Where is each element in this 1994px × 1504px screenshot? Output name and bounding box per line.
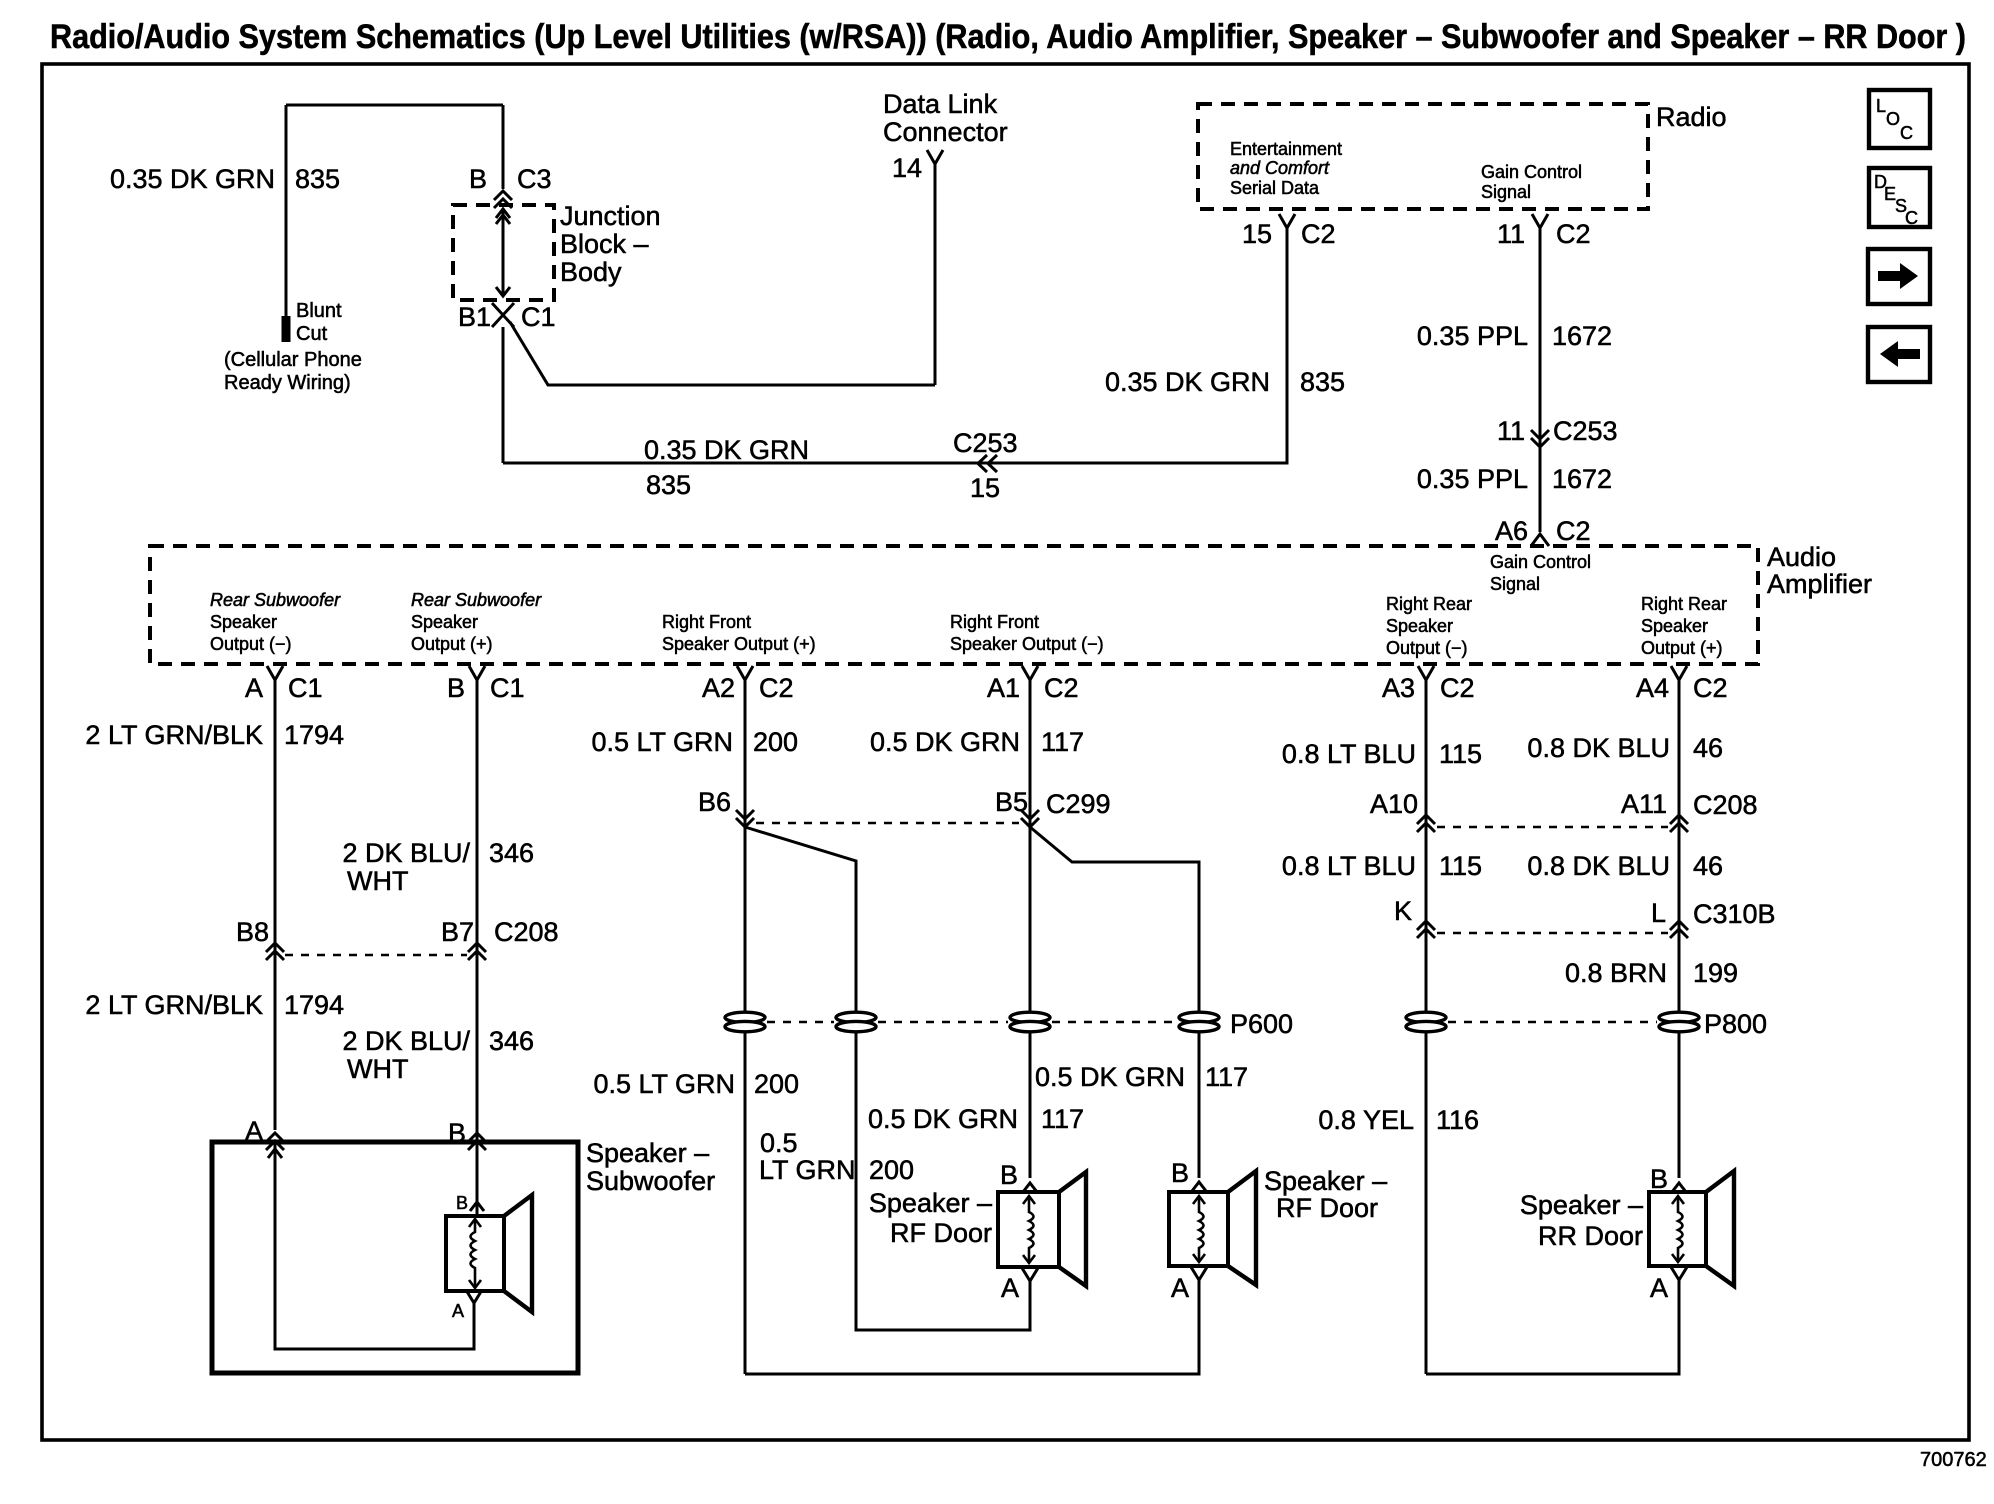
svg-text:Signal: Signal	[1481, 182, 1531, 202]
svg-text:and Comfort: and Comfort	[1230, 158, 1330, 178]
svg-text:15: 15	[970, 473, 1000, 503]
svg-text:1794: 1794	[284, 990, 344, 1020]
button arrow left	[1868, 327, 1930, 382]
RR door speaker coil box	[1649, 1192, 1706, 1266]
subwoofer speaker pin A fork	[466, 1290, 482, 1305]
svg-text:116: 116	[1436, 1105, 1479, 1135]
svg-text:Right Rear: Right Rear	[1641, 594, 1727, 614]
svg-text:0.8 LT BLU: 0.8 LT BLU	[1282, 739, 1416, 769]
svg-text:0.35 DK GRN: 0.35 DK GRN	[644, 435, 809, 465]
RR door speaker coil element	[1678, 1196, 1683, 1262]
svg-text:B1: B1	[458, 302, 491, 332]
connector C253 chevrons	[978, 455, 997, 472]
svg-text:B: B	[1171, 1158, 1189, 1188]
svg-text:1794: 1794	[284, 720, 344, 750]
button arrow right	[1868, 249, 1930, 304]
svg-text:C: C	[1905, 208, 1918, 228]
svg-text:LT GRN: LT GRN	[759, 1155, 856, 1185]
svg-text:Signal: Signal	[1490, 574, 1540, 594]
svg-text:117: 117	[1041, 727, 1084, 757]
svg-text:Rear Subwoofer: Rear Subwoofer	[210, 590, 341, 610]
dashed connector line K to L	[1437, 932, 1668, 935]
svg-text:2 DK BLU/: 2 DK BLU/	[342, 838, 470, 868]
svg-text:Speaker: Speaker	[1386, 616, 1453, 636]
svg-text:A11: A11	[1621, 789, 1667, 819]
amplifier pin A2 C2 fork	[737, 666, 753, 682]
svg-text:Right Rear: Right Rear	[1386, 594, 1472, 614]
svg-text:RF Door: RF Door	[890, 1218, 992, 1248]
wire 835 down from B1 C1	[502, 327, 505, 463]
button LOC	[1869, 90, 1930, 148]
svg-text:WHT: WHT	[347, 1054, 408, 1084]
svg-text:Speaker –: Speaker –	[869, 1188, 992, 1218]
junction block internal pass-through wire	[502, 208, 505, 296]
amplifier pin A1 C2 fork	[1022, 666, 1038, 682]
svg-text:B6: B6	[698, 787, 731, 817]
svg-text:Right Front: Right Front	[662, 612, 751, 632]
wire to data link connector pin 14	[934, 165, 937, 385]
amplifier pin A3 C2 fork	[1418, 666, 1434, 682]
svg-text:B: B	[456, 1193, 468, 1213]
svg-text:Speaker –: Speaker –	[1520, 1190, 1643, 1220]
svg-text:P800: P800	[1704, 1009, 1767, 1039]
svg-text:0.35 DK GRN: 0.35 DK GRN	[110, 164, 275, 194]
svg-text:Junction: Junction	[560, 201, 661, 231]
svg-text:1672: 1672	[1552, 464, 1612, 494]
amplifier pin B C1 fork	[469, 666, 485, 682]
button DESC	[1869, 168, 1930, 228]
svg-text:C: C	[1900, 123, 1913, 143]
svg-text:C2: C2	[1693, 673, 1728, 703]
svg-text:0.35 PPL: 0.35 PPL	[1417, 321, 1528, 351]
svg-text:C253: C253	[953, 428, 1018, 458]
subwoofer speaker horn	[504, 1195, 532, 1312]
RF door speaker 1 horn	[1059, 1172, 1086, 1286]
svg-text:115: 115	[1439, 739, 1482, 769]
svg-text:B5: B5	[995, 787, 1028, 817]
connector 11 C253 chevrons	[1531, 430, 1549, 447]
RR door speaker pin B chevron	[1672, 1183, 1686, 1192]
RF door speaker 1 pin A fork	[1022, 1268, 1038, 1283]
junction block body dashed box	[453, 205, 554, 300]
svg-text:Rear Subwoofer: Rear Subwoofer	[411, 590, 542, 610]
svg-text:C2: C2	[1556, 219, 1591, 249]
radio dashed box	[1198, 104, 1648, 209]
dashed grommet line P600	[767, 1021, 1177, 1024]
grommet on wire 115	[1406, 1012, 1446, 1032]
svg-text:11: 11	[1497, 416, 1525, 446]
svg-text:199: 199	[1693, 958, 1738, 988]
blunt cut	[282, 316, 291, 342]
speaker subwoofer enclosure box	[212, 1142, 578, 1373]
RF door speaker 1 coil box	[998, 1192, 1059, 1267]
svg-text:Speaker: Speaker	[1641, 616, 1708, 636]
svg-text:0.8 DK BLU: 0.8 DK BLU	[1527, 851, 1670, 881]
radio pin 11 C2 fork	[1532, 214, 1548, 230]
svg-text:Speaker –: Speaker –	[586, 1138, 709, 1168]
connector A10 chevrons	[1417, 815, 1435, 832]
svg-text:C2: C2	[1556, 516, 1591, 546]
svg-text:0.5 LT GRN: 0.5 LT GRN	[591, 727, 733, 757]
svg-text:C1: C1	[490, 673, 525, 703]
svg-text:835: 835	[1300, 367, 1345, 397]
svg-text:Speaker Output (−): Speaker Output (−)	[950, 634, 1104, 654]
connector B8 chevrons	[266, 943, 284, 960]
connector K chevrons	[1417, 921, 1435, 938]
svg-text:B7: B7	[441, 917, 474, 947]
svg-text:Connector: Connector	[883, 117, 1008, 147]
svg-text:46: 46	[1693, 851, 1723, 881]
audio amplifier dashed box	[150, 546, 1758, 664]
svg-text:P600: P600	[1230, 1009, 1293, 1039]
svg-text:RF Door: RF Door	[1276, 1193, 1378, 1223]
svg-text:0.5 DK GRN: 0.5 DK GRN	[868, 1104, 1018, 1134]
svg-text:0.8 LT BLU: 0.8 LT BLU	[1282, 851, 1416, 881]
svg-text:Data Link: Data Link	[883, 89, 998, 119]
svg-text:2 LT GRN/BLK: 2 LT GRN/BLK	[85, 720, 263, 750]
svg-text:0.5 DK GRN: 0.5 DK GRN	[870, 727, 1020, 757]
subwoofer speaker coil box	[446, 1216, 504, 1291]
svg-text:115: 115	[1439, 851, 1482, 881]
svg-text:K: K	[1394, 896, 1412, 926]
svg-text:A2: A2	[702, 673, 735, 703]
svg-text:A: A	[452, 1301, 464, 1321]
pin A6 C2 chevron into amplifier	[1531, 534, 1549, 546]
RR door speaker pin A fork	[1671, 1267, 1687, 1282]
amplifier pin A4 C2 fork	[1671, 666, 1687, 682]
subwoofer speaker coil element	[471, 1219, 476, 1288]
svg-text:11: 11	[1497, 219, 1525, 249]
svg-text:117: 117	[1205, 1062, 1248, 1092]
svg-text:Audio: Audio	[1767, 542, 1836, 572]
svg-text:L: L	[1651, 898, 1666, 928]
RF door speaker 2 pin A fork	[1191, 1267, 1207, 1282]
grommet on wire 200	[725, 1012, 765, 1032]
svg-text:1672: 1672	[1552, 321, 1612, 351]
svg-text:Block –: Block –	[560, 229, 649, 259]
svg-text:46: 46	[1693, 733, 1723, 763]
svg-text:A3: A3	[1382, 673, 1415, 703]
wire 346 from pin B down to subwoofer	[476, 680, 479, 1216]
svg-text:700762: 700762	[1920, 1449, 1987, 1471]
svg-text:RR Door: RR Door	[1538, 1221, 1643, 1251]
svg-text:B: B	[469, 164, 487, 194]
svg-text:C2: C2	[759, 673, 794, 703]
pin B C3 connector chevrons	[494, 191, 512, 208]
svg-text:O: O	[1886, 109, 1900, 129]
wire into junction block pin B C3	[502, 105, 505, 189]
dashed grommet line P800	[1448, 1021, 1657, 1024]
RF door speaker 2 coil element	[1199, 1196, 1204, 1262]
amplifier pin A C1 fork	[267, 666, 283, 682]
svg-text:0.8 DK BLU: 0.8 DK BLU	[1527, 733, 1670, 763]
svg-text:C208: C208	[1693, 790, 1758, 820]
svg-text:Entertainment: Entertainment	[1230, 139, 1342, 159]
svg-text:0.35 DK GRN: 0.35 DK GRN	[1105, 367, 1270, 397]
RF door speaker 2 horn	[1228, 1171, 1256, 1285]
wire 200 bottom return to RF door speaker 2 pin A	[745, 1280, 1199, 1374]
svg-text:Output (−): Output (−)	[1386, 638, 1468, 658]
grommet on wire 199	[1659, 1012, 1699, 1032]
svg-text:0.5: 0.5	[760, 1128, 798, 1158]
RF door speaker 2 coil box	[1169, 1192, 1228, 1266]
svg-text:Output (+): Output (+)	[1641, 638, 1723, 658]
svg-text:117: 117	[1041, 1104, 1084, 1134]
RF door speaker 1 coil element	[1029, 1196, 1034, 1263]
svg-text:B: B	[447, 673, 465, 703]
svg-text:Output (+): Output (+)	[411, 634, 493, 654]
wire 835 blunt cut vertical	[285, 105, 288, 318]
svg-text:Cut: Cut	[296, 323, 328, 345]
svg-text:A: A	[1001, 1273, 1019, 1303]
subwoofer internal wire B	[476, 1142, 479, 1216]
svg-text:Right Front: Right Front	[950, 612, 1039, 632]
svg-text:0.8 YEL: 0.8 YEL	[1318, 1105, 1414, 1135]
RF door speaker 1 pin B chevron	[1023, 1183, 1037, 1192]
svg-text:200: 200	[753, 727, 798, 757]
svg-text:Speaker: Speaker	[411, 612, 478, 632]
svg-text:A10: A10	[1370, 789, 1418, 819]
wire 115 from pin A3 down	[1425, 680, 1428, 1374]
svg-text:WHT: WHT	[347, 866, 408, 896]
RF door speaker 2 pin B chevron	[1192, 1182, 1206, 1191]
svg-text:200: 200	[754, 1069, 799, 1099]
connector B5 C299 chevrons	[1021, 810, 1039, 827]
svg-text:200: 200	[869, 1155, 914, 1185]
svg-text:346: 346	[489, 1026, 534, 1056]
svg-text:Body: Body	[560, 257, 622, 287]
wire 835 top horizontal from blunt cut to junction block	[286, 104, 503, 107]
svg-text:C2: C2	[1044, 673, 1079, 703]
svg-text:835: 835	[646, 470, 691, 500]
svg-text:C299: C299	[1046, 789, 1111, 819]
grommet on wire 117 branch	[1179, 1012, 1219, 1032]
wire 1794 from pin A down to subwoofer	[274, 680, 277, 1130]
svg-text:346: 346	[489, 838, 534, 868]
wire 116 bottom return to RR door speaker pin A	[1426, 1280, 1679, 1374]
radio pin 15 C2 fork	[1279, 214, 1295, 230]
wire 46 from pin A4 down to RR door speaker B	[1678, 680, 1681, 1178]
svg-text:15: 15	[1242, 219, 1272, 249]
dashed connector line A10 to A11	[1437, 826, 1668, 829]
svg-text:C1: C1	[288, 673, 323, 703]
svg-text:C208: C208	[494, 917, 559, 947]
svg-text:A6: A6	[1495, 516, 1528, 546]
svg-text:A4: A4	[1636, 673, 1669, 703]
grommet on wire 200 branch	[836, 1012, 876, 1032]
RR door speaker horn	[1706, 1171, 1734, 1286]
wire 1672 from radio pin 11	[1539, 228, 1542, 532]
svg-text:Radio/Audio System Schematics: Radio/Audio System Schematics (Up Level …	[50, 18, 1966, 56]
svg-text:0.5 DK GRN: 0.5 DK GRN	[1035, 1062, 1185, 1092]
subwoofer pin A chevrons	[266, 1133, 284, 1150]
svg-text:B8: B8	[236, 917, 269, 947]
wire 835 diagonal from B1 C1 to data link connector run	[510, 322, 935, 385]
svg-text:L: L	[1876, 96, 1886, 116]
pin 14 fork	[927, 150, 943, 166]
pin B1 C1 connector X	[492, 303, 514, 327]
svg-text:(Cellular Phone: (Cellular Phone	[224, 349, 362, 371]
svg-text:Radio: Radio	[1656, 102, 1727, 132]
wire 117 from pin A1 down to RF door speaker B	[1029, 680, 1032, 1178]
svg-text:Gain Control: Gain Control	[1481, 162, 1582, 182]
svg-text:C253: C253	[1553, 416, 1618, 446]
svg-text:C2: C2	[1440, 673, 1475, 703]
svg-text:Amplifier: Amplifier	[1767, 569, 1872, 599]
wire 200 branch from B6 to RF door speaker A	[745, 827, 1030, 1330]
svg-text:Ready Wiring): Ready Wiring)	[224, 372, 351, 394]
svg-text:Blunt: Blunt	[296, 300, 342, 322]
svg-text:835: 835	[295, 164, 340, 194]
svg-text:2 DK BLU/: 2 DK BLU/	[342, 1026, 470, 1056]
svg-text:0.35 PPL: 0.35 PPL	[1417, 464, 1528, 494]
svg-text:Gain Control: Gain Control	[1490, 552, 1591, 572]
svg-text:Output (−): Output (−)	[210, 634, 292, 654]
svg-text:C1: C1	[521, 302, 556, 332]
wire 835 horizontal run to radio pin 15	[503, 230, 1287, 463]
svg-text:0.8 BRN: 0.8 BRN	[1565, 958, 1667, 988]
svg-text:2 LT GRN/BLK: 2 LT GRN/BLK	[85, 990, 263, 1020]
connector B6 chevrons	[736, 810, 754, 827]
svg-text:14: 14	[892, 153, 922, 183]
subwoofer internal wire A	[275, 1142, 474, 1349]
dashed connector line B6 to B5	[756, 822, 1019, 825]
dashed connector line B8 to B7	[285, 954, 467, 957]
svg-text:A: A	[1171, 1273, 1189, 1303]
svg-text:Serial Data: Serial Data	[1230, 178, 1320, 198]
wire 200 from pin A2 down	[744, 680, 747, 1374]
connector L C310B chevrons	[1670, 921, 1688, 938]
wire 117 branch from B5 to second RF door speaker B	[1030, 827, 1199, 1178]
svg-text:B: B	[1000, 1160, 1018, 1190]
svg-text:Subwoofer: Subwoofer	[586, 1166, 715, 1196]
svg-text:Speaker Output (+): Speaker Output (+)	[662, 634, 816, 654]
connector B7 C208 chevrons	[468, 943, 486, 960]
svg-text:0.5 LT GRN: 0.5 LT GRN	[593, 1069, 735, 1099]
grommet on wire 117	[1010, 1012, 1050, 1032]
svg-text:B: B	[1650, 1164, 1668, 1194]
svg-text:C310B: C310B	[1693, 899, 1776, 929]
svg-text:A: A	[1650, 1273, 1668, 1303]
svg-text:A1: A1	[987, 673, 1020, 703]
svg-text:C2: C2	[1301, 219, 1336, 249]
svg-text:C3: C3	[517, 164, 552, 194]
svg-text:Speaker: Speaker	[210, 612, 277, 632]
subwoofer pin B chevrons	[468, 1133, 486, 1150]
svg-text:Speaker –: Speaker –	[1264, 1166, 1387, 1196]
svg-text:A: A	[245, 673, 263, 703]
connector A11 C208 chevrons	[1670, 815, 1688, 832]
